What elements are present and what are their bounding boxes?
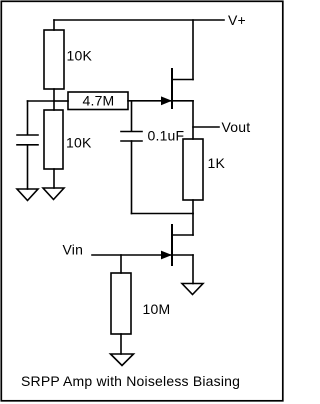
transistor Q2 (lower JFET) xyxy=(161,225,193,265)
wire Q1 source rail down xyxy=(192,101,194,139)
svg-text:1K: 1K xyxy=(208,155,226,171)
wire R5 bottom lead xyxy=(120,334,122,354)
capacitor C2 0.1uF top lead xyxy=(131,101,133,131)
resistor R4 1K xyxy=(183,139,203,200)
svg-text:V+: V+ xyxy=(228,12,246,28)
svg-text:10K: 10K xyxy=(67,48,93,64)
capacitor C2 bottom lead xyxy=(131,141,133,214)
wire Vin junction down to R5 xyxy=(120,255,122,273)
wire R1 bottom to R2 top junction xyxy=(53,89,55,110)
wire R4 bottom to node xyxy=(192,200,194,214)
capacitor C1 bottom lead xyxy=(27,145,29,189)
wire bottom feedback net xyxy=(132,213,194,215)
svg-text:0.1uF: 0.1uF xyxy=(148,128,185,144)
wire R2 bottom lead xyxy=(53,169,55,188)
wire R3 right to Q1 gate xyxy=(128,100,171,102)
resistor R1 10K xyxy=(44,30,64,89)
resistor R3 4.7M xyxy=(68,92,128,110)
ground (under Q2 source) xyxy=(182,284,203,295)
wire Vin to Q2 gate xyxy=(92,254,171,256)
capacitor C2 plates xyxy=(121,132,142,142)
wire V+ rail top xyxy=(54,19,224,21)
svg-text:Vin: Vin xyxy=(63,242,84,258)
capacitor C1 plates xyxy=(17,135,38,145)
resistor R2 10K xyxy=(44,110,63,169)
svg-text:Vout: Vout xyxy=(222,119,251,135)
svg-text:10K: 10K xyxy=(66,135,92,151)
wire gate net left to bypass cap xyxy=(28,100,55,102)
ground (under R2) xyxy=(43,188,64,200)
wire Q2 source down xyxy=(192,255,194,284)
wire Vout stub xyxy=(193,126,219,128)
wire node down to Q2 drain xyxy=(192,214,194,236)
svg-text:SRPP Amp with Noiseless Biasin: SRPP Amp with Noiseless Biasing xyxy=(21,373,240,389)
resistor R5 10M xyxy=(111,273,131,334)
ground (under C1) xyxy=(17,189,38,201)
capacitor C1 (bypass) top lead xyxy=(27,101,29,135)
transistor Q1 (upper JFET) xyxy=(161,69,193,108)
svg-text:10M: 10M xyxy=(143,301,171,317)
wire top rail to R1 xyxy=(53,20,55,30)
wire V+ rail down to Q1 drain xyxy=(192,20,194,80)
wire junction to R3 left xyxy=(54,100,68,102)
ground (under R5) xyxy=(111,354,134,366)
svg-text:4.7M: 4.7M xyxy=(83,93,115,109)
